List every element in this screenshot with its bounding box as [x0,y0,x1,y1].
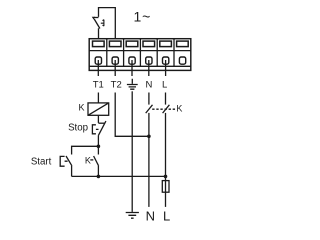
svg-text:K: K [176,103,182,113]
svg-text:1~: 1~ [134,9,152,25]
svg-text:L: L [163,209,170,224]
svg-text:K: K [78,102,84,112]
svg-text:T1: T1 [93,79,104,90]
svg-text:Start: Start [31,157,52,168]
svg-text:T2: T2 [111,79,122,90]
svg-text:Stop: Stop [68,123,88,134]
svg-text:N: N [145,79,152,90]
svg-text:N: N [146,209,155,224]
svg-text:K: K [85,155,91,165]
svg-text:L: L [162,79,167,90]
